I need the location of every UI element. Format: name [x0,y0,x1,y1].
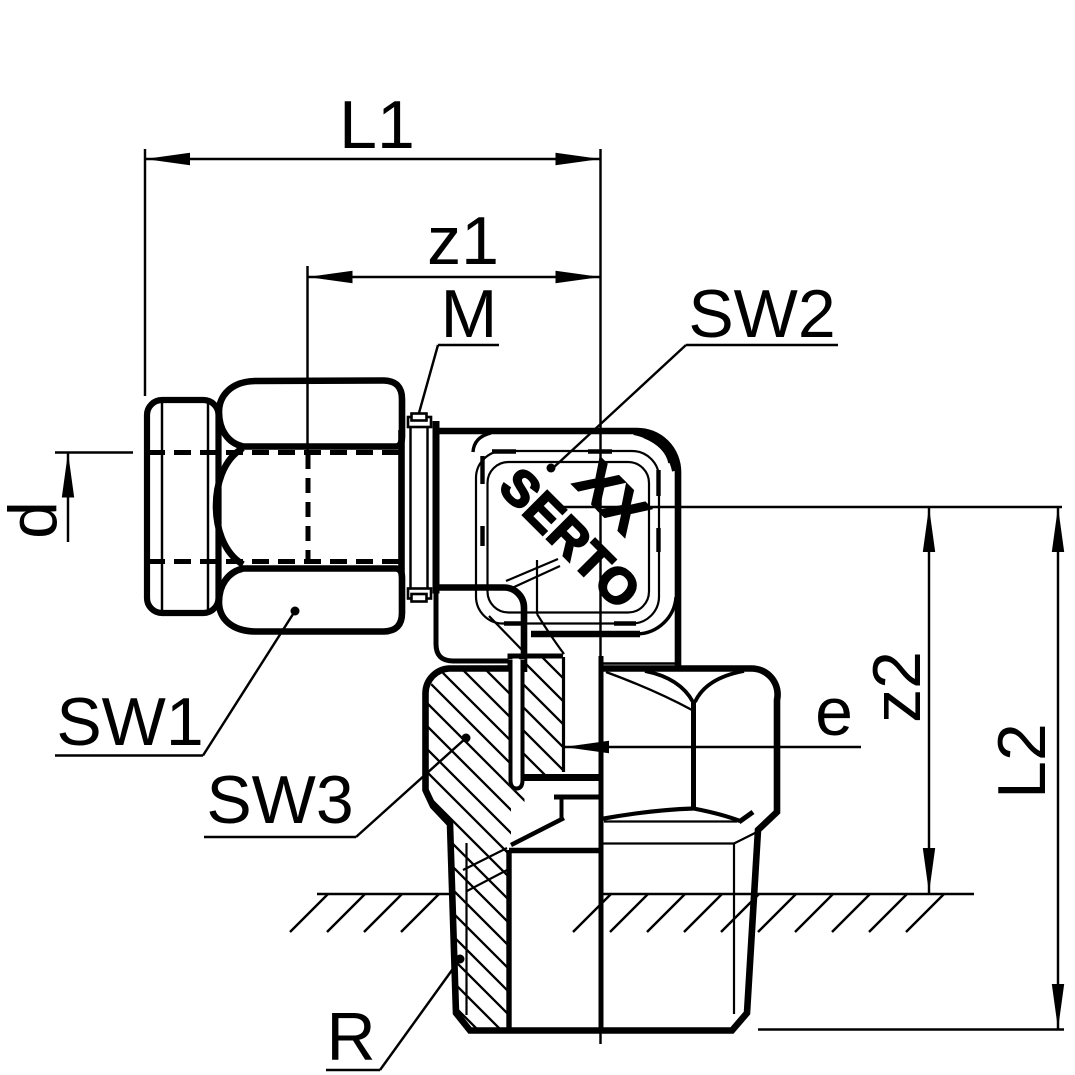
corner crescent top-right [634,433,675,472]
hex SW3 left (sectioned) outline [426,668,778,1030]
dimension d [55,451,133,453]
svg-text:M: M [441,276,498,352]
svg-text:SW1: SW1 [56,684,203,760]
horizontal axis extension line y=507 [556,506,1062,508]
svg-text:z2: z2 [859,651,935,723]
union nut SW1: hex middle band left arc [216,448,243,565]
hex right half face lines [691,700,696,809]
body bottom-right internal corner arc [637,597,676,634]
bore wall in section [562,657,565,772]
vertical leg walls [601,662,676,664]
male thread M exposed [408,417,431,427]
union nut SW1: cap [147,400,219,613]
dimension L2 [1057,507,1059,1029]
hidden tube bore (dashed) [148,453,402,562]
dimension L1 [144,149,146,396]
thread relief slot (white) [509,660,525,791]
dimension z1 [306,266,308,452]
elbow heel shoulder [436,593,511,661]
section boundary at centerline [599,656,604,1030]
svg-text:z1: z1 [427,203,499,279]
union nut SW1: hex top band [219,381,402,447]
section hatching SW3 hex left half [426,669,562,778]
internal thread bars [514,774,601,781]
union nut SW1: right edge [398,430,405,585]
union nut SW1: hex bottom band [219,569,402,632]
hidden tube end (dashed vertical) [306,454,311,560]
corner arc top-left [473,433,491,452]
face edge marks [480,456,484,546]
svg-text:L2: L2 [984,723,1060,799]
svg-text:SW2: SW2 [688,276,835,352]
dimension e [564,746,861,748]
ground line (mounting wall) [317,893,974,895]
svg-text:d: d [0,501,71,539]
svg-text:e: e [815,674,853,750]
ground hatch strokes [290,894,944,932]
elbow body SW2 outer outline [433,431,678,667]
body collar [433,421,440,594]
svg-text:SW3: SW3 [206,762,353,838]
svg-text:R: R [326,999,375,1075]
vertical axis / extension line x=601 [599,149,601,1044]
thread root lines [465,843,467,1015]
dimension z2 [928,507,930,893]
hex/leg interface step [508,656,564,671]
svg-text:L1: L1 [339,87,415,163]
section hatching R thread left band [433,806,511,1029]
body face inner rounded squares [476,451,659,624]
leg-body fillet lines [506,559,560,588]
